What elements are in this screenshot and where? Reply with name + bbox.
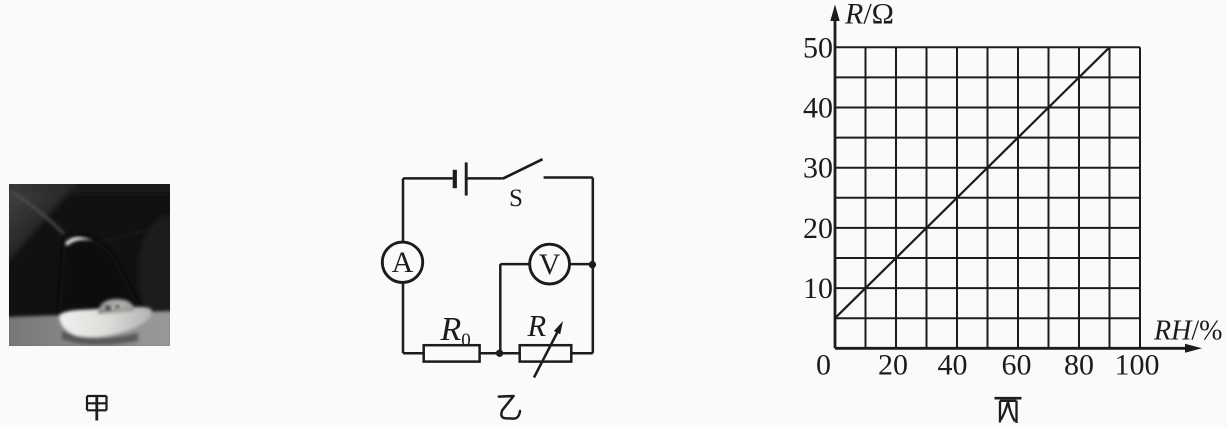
- svg-text:20: 20: [803, 212, 833, 245]
- svg-text:0: 0: [816, 349, 831, 382]
- svg-text:60: 60: [1002, 349, 1032, 382]
- svg-text:A: A: [392, 246, 414, 279]
- svg-text:R0: R0: [440, 311, 471, 351]
- svg-text:R: R: [527, 309, 547, 343]
- svg-text:30: 30: [803, 152, 833, 185]
- svg-text:10: 10: [803, 272, 833, 305]
- svg-text:100: 100: [1115, 349, 1160, 382]
- svg-text:20: 20: [878, 349, 908, 382]
- svg-text:R/Ω: R/Ω: [844, 0, 894, 31]
- svg-text:50: 50: [803, 32, 833, 65]
- svg-text:40: 40: [803, 92, 833, 125]
- svg-text:40: 40: [938, 349, 968, 382]
- svg-text:RH/%: RH/%: [1153, 316, 1222, 347]
- svg-text:V: V: [539, 248, 561, 281]
- svg-text:S: S: [509, 185, 523, 212]
- svg-text:80: 80: [1064, 349, 1094, 382]
